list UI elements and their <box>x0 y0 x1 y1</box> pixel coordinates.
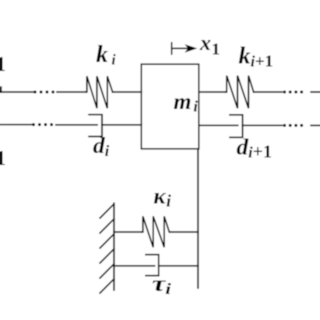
wire right spring row segment <box>254 91 282 93</box>
wire wall to spring kappa_i <box>114 231 142 233</box>
ground hatch 1 <box>100 204 114 218</box>
spring kappa_i <box>142 216 170 247</box>
wire wall to damper tau_i (piston rod) <box>114 265 155 267</box>
wire mass to damper d_i+1 (piston rod) <box>199 124 238 126</box>
svg-text:1: 1 <box>0 146 6 170</box>
wire right spring row edge segment <box>311 91 320 93</box>
wire spring k_i to mass <box>113 91 142 93</box>
wire damper tau_i to vertical <box>159 265 198 267</box>
damper d_i+1 cup <box>230 115 243 138</box>
damper tau_i cup <box>146 255 159 276</box>
ground wall line <box>113 203 115 290</box>
ground hatch 4 <box>100 249 114 263</box>
arrow x_1 head <box>185 44 198 52</box>
wire damper d_i to mass <box>102 124 141 126</box>
dots right damper row <box>283 124 286 127</box>
ground hatch 5 <box>100 264 114 278</box>
wire left spring row segment A <box>0 91 33 93</box>
svg-text:1: 1 <box>0 52 6 76</box>
spring k_i <box>86 76 113 108</box>
ground hatch 6 <box>100 279 114 293</box>
dots left spring row <box>34 91 37 94</box>
wire right damper row segment <box>243 124 282 126</box>
arrow x_1 shaft <box>172 47 191 49</box>
wire left damper row segment B (piston rod) <box>56 124 97 126</box>
damper d_i cup <box>89 115 102 137</box>
dots right spring row <box>283 91 286 94</box>
arrow x_1 tail tick <box>171 43 173 54</box>
wire left damper row segment A <box>0 124 32 126</box>
wire spring kappa_i to vertical <box>169 231 198 233</box>
wire vertical from mass bottom <box>197 149 199 288</box>
spring k_i+1 <box>226 76 254 109</box>
wire mass to spring k_i+1 <box>199 91 226 93</box>
dots left damper row <box>32 123 35 126</box>
mass m_i rectangle <box>141 64 199 149</box>
ground hatch 2 <box>100 219 114 233</box>
wire right damper row edge segment <box>311 124 320 126</box>
wire left spring row segment B <box>57 91 86 93</box>
ground hatch 3 <box>100 234 114 248</box>
node left-edge tick (cut-off element) <box>0 87 2 92</box>
